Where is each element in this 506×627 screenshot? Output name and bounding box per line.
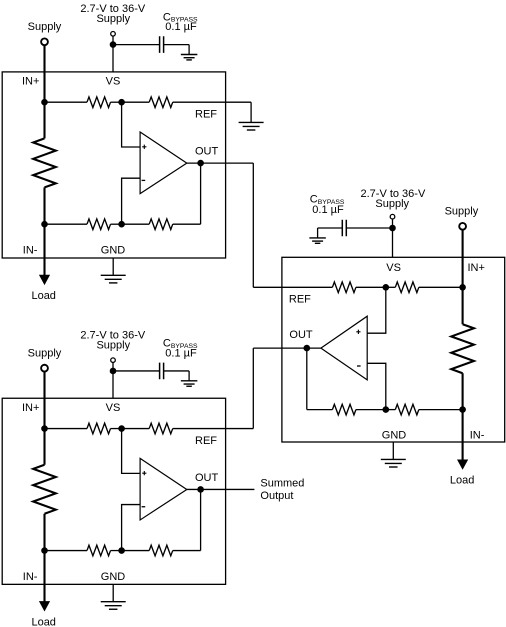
wire node to feedback resistor U1-R4 xyxy=(122,223,150,225)
node IN+ junction of U3 xyxy=(41,425,48,432)
wire U1-R3 to inverting node xyxy=(111,223,122,225)
wire IN- pin of U3 to load xyxy=(43,551,45,602)
svg-text:Load: Load xyxy=(31,616,55,627)
wire U3-R4 to OUT node xyxy=(173,550,201,552)
wire capacitor C2 to VS node of U2 xyxy=(346,227,392,229)
node IN- junction of U1 xyxy=(41,221,48,228)
load arrow of U3 xyxy=(39,601,50,611)
feedback resistor U3-R2 xyxy=(149,423,173,434)
wire VS node to bypass capacitor C3 xyxy=(113,370,160,372)
wire ground to bypass capacitor C2 xyxy=(318,227,343,229)
svg-text:Supply: Supply xyxy=(445,205,479,217)
shunt resistor RS2 bottom lead xyxy=(462,373,464,409)
wire U2-R4 to IN- node xyxy=(419,409,463,411)
wire U1-R1 to noninverting node xyxy=(111,101,122,103)
svg-text:VS: VS xyxy=(386,262,401,274)
amplifier block U3 body xyxy=(2,398,225,584)
svg-text:GND: GND xyxy=(382,429,407,441)
wire U2-R3 to inverting node xyxy=(356,409,386,411)
wire IN+ node to gain resistor U3-R1 xyxy=(45,428,88,430)
svg-text:IN-: IN- xyxy=(23,245,38,257)
op-amp U3 + input marker xyxy=(142,471,146,475)
shunt resistor RS3 xyxy=(33,465,56,514)
junction VS node of U1 xyxy=(110,41,117,48)
shunt resistor RS1 xyxy=(33,138,56,187)
wire IN- node to gain resistor U3-R3 xyxy=(45,550,88,552)
svg-text:IN-: IN- xyxy=(470,429,485,441)
svg-text:Output: Output xyxy=(260,490,293,502)
node IN- junction of U3 xyxy=(41,547,48,554)
svg-text:0.1 µF: 0.1 µF xyxy=(312,204,344,216)
wire op-amp output to OUT pin of U1 and to U2 REF xyxy=(187,162,254,164)
svg-text:Supply: Supply xyxy=(96,340,130,352)
shunt resistor RS2 top lead xyxy=(462,287,464,324)
wire VS terminal to node for U1 xyxy=(112,36,114,45)
supply terminal (IN+) for U1 xyxy=(41,38,48,45)
svg-text:GND: GND xyxy=(101,571,126,583)
VS supply terminal for U3 xyxy=(111,358,116,363)
wire U2 OUT down toward U3 REF xyxy=(252,348,254,428)
svg-text:IN-: IN- xyxy=(23,571,38,583)
wire noninverting node to op-amp + input of U1 xyxy=(122,102,141,147)
wire supply terminal to IN+ pin of U2 xyxy=(462,230,464,288)
wire node to feedback resistor U3-R4 xyxy=(122,550,150,552)
wire inverting node to op-amp - input of U3 xyxy=(122,505,141,551)
op-amp U1 - input marker xyxy=(142,179,146,181)
op-amp U2 - input marker xyxy=(357,365,361,367)
ground at GND pin of U1 xyxy=(112,258,114,275)
VS supply terminal for U1 xyxy=(111,32,116,37)
wire VS node to bypass capacitor C1 xyxy=(113,44,160,46)
node IN+ junction of U1 xyxy=(41,99,48,106)
amplifier block U2 body xyxy=(282,257,505,442)
wire op-amp output to OUT pin of U3 (summed output) xyxy=(187,488,255,490)
junction inverting input node of U3 xyxy=(118,547,125,554)
junction noninverting input node of U2 xyxy=(383,284,390,291)
ground at GND pin of U3 xyxy=(112,584,114,601)
junction OUT node of U3 xyxy=(197,486,204,493)
bypass capacitor C2 xyxy=(342,220,346,237)
svg-text:VS: VS xyxy=(106,402,121,414)
wire IN- pin of U1 to load xyxy=(43,224,45,275)
wire U2-R2 to IN+ node xyxy=(419,286,463,288)
ground for bypass capacitor C3 xyxy=(188,371,190,381)
bypass capacitor C3 xyxy=(160,363,164,380)
svg-text:REF: REF xyxy=(289,293,311,305)
svg-text:IN+: IN+ xyxy=(22,75,39,87)
svg-text:Load: Load xyxy=(31,290,55,302)
wire U1 OUT down toward U2 REF xyxy=(252,163,254,287)
load arrow of U2 xyxy=(457,460,468,470)
gain resistor U3-R1 xyxy=(87,423,111,434)
shunt resistor RS3 top lead xyxy=(43,429,45,465)
wire REF pin of U1 to ground xyxy=(173,101,251,103)
junction noninverting input node of U3 xyxy=(118,425,125,432)
wire REF pin of U3 to U2 OUT net xyxy=(173,428,254,430)
gain resistor U2-R1 xyxy=(332,282,356,293)
wire capacitor C3 to ground xyxy=(164,370,190,372)
wire supply terminal to IN+ pin of U1 xyxy=(43,45,45,102)
svg-text:GND: GND xyxy=(101,245,126,257)
svg-text:0.1 µF: 0.1 µF xyxy=(165,21,197,33)
junction OUT node of U1 xyxy=(197,160,204,167)
feedback resistor U2-R2 xyxy=(395,282,419,293)
op-amp U2 xyxy=(321,316,367,380)
wire OUT node to feedback resistor U2-R4 xyxy=(306,348,308,410)
svg-text:Supply: Supply xyxy=(28,21,62,33)
wire supply terminal to IN+ pin of U3 xyxy=(43,372,45,429)
svg-text:Supply: Supply xyxy=(96,13,130,25)
wire VS node to VS pin of U1 xyxy=(112,45,114,72)
svg-text:REF: REF xyxy=(195,435,217,447)
wire capacitor C1 to ground xyxy=(164,44,190,46)
feedback resistor U3-R4 xyxy=(149,545,173,556)
gain resistor U3-R3 xyxy=(87,545,111,556)
svg-text:IN+: IN+ xyxy=(22,402,39,414)
svg-text:REF: REF xyxy=(195,109,217,121)
wire IN- pin of U2 to load xyxy=(462,410,464,460)
junction noninverting input node of U1 xyxy=(118,99,125,106)
amplifier block U1 body xyxy=(2,72,225,258)
wire inverting node to op-amp - input of U2 xyxy=(367,363,386,409)
feedback resistor U2-R4 xyxy=(395,404,419,415)
wire U2-R1 to noninverting node xyxy=(356,286,386,288)
VS supply terminal for U2 xyxy=(390,214,395,219)
wire OUT node to feedback resistor U3-R4 xyxy=(200,489,202,550)
node IN+ junction of U2 xyxy=(459,284,466,291)
op-amp U1 xyxy=(140,132,187,194)
wire inverting node to op-amp - input of U1 xyxy=(122,178,141,224)
shunt resistor RS2 xyxy=(451,324,474,373)
wire U1-R4 to OUT node xyxy=(173,223,201,225)
wire VS terminal to node for U3 xyxy=(112,362,114,371)
node IN- junction of U2 xyxy=(459,406,466,413)
svg-text:Summed: Summed xyxy=(260,478,304,490)
svg-text:Load: Load xyxy=(450,475,474,487)
svg-text:OUT: OUT xyxy=(289,329,313,341)
svg-text:0.1 µF: 0.1 µF xyxy=(165,347,197,359)
wire node to feedback resistor U2-R4 xyxy=(386,409,396,411)
feedback resistor U1-R2 xyxy=(149,97,173,108)
wire node to feedback resistor U2-R2 xyxy=(386,286,396,288)
wire VS node to VS pin of U2 xyxy=(392,228,394,257)
wire bottom row left lead of U2 xyxy=(307,409,333,411)
gain resistor U1-R1 xyxy=(87,97,111,108)
wire U1 OUT to REF pin / gain resistor U2-R1 xyxy=(253,286,332,288)
svg-text:Supply: Supply xyxy=(28,347,62,359)
gain resistor U1-R3 xyxy=(87,219,111,230)
wire op-amp output to OUT pin of U2 toward U3 REF xyxy=(253,347,321,349)
junction inverting input node of U2 xyxy=(383,406,390,413)
svg-text:OUT: OUT xyxy=(195,472,219,484)
wire U3-R3 to inverting node xyxy=(111,550,122,552)
load arrow of U1 xyxy=(39,275,50,285)
svg-text:VS: VS xyxy=(106,75,121,87)
wire U3-R1 to noninverting node xyxy=(111,428,122,430)
shunt resistor RS1 bottom lead xyxy=(43,187,45,224)
wire noninverting node to op-amp + input of U2 xyxy=(367,287,386,333)
wire OUT node to feedback resistor U1-R4 xyxy=(200,163,202,224)
svg-text:IN+: IN+ xyxy=(468,262,485,274)
svg-text:OUT: OUT xyxy=(195,146,219,158)
op-amp U2 + input marker xyxy=(356,330,360,334)
junction inverting input node of U1 xyxy=(118,221,125,228)
wire node to feedback resistor U1-R2 xyxy=(122,101,150,103)
shunt resistor RS3 bottom lead xyxy=(43,514,45,551)
wire IN- node to gain resistor U1-R3 xyxy=(45,223,88,225)
junction OUT node of U2 xyxy=(304,345,311,352)
shunt resistor RS1 top lead xyxy=(43,102,45,138)
junction VS node of U3 xyxy=(110,368,117,375)
wire node to feedback resistor U3-R2 xyxy=(122,428,150,430)
op-amp U3 - input marker xyxy=(142,506,146,508)
ground for bypass capacitor C1 xyxy=(188,45,190,55)
feedback resistor U1-R4 xyxy=(149,219,173,230)
op-amp U3 xyxy=(140,458,187,520)
bypass capacitor C1 xyxy=(160,36,164,53)
supply terminal (IN+) for U2 xyxy=(459,223,466,230)
wire VS terminal to node for U2 xyxy=(392,219,394,228)
gain resistor U2-R3 xyxy=(332,404,356,415)
wire noninverting node to op-amp + input of U3 xyxy=(122,429,141,474)
op-amp U1 + input marker xyxy=(142,145,146,149)
ground at GND pin of U2 xyxy=(392,442,394,459)
junction VS node of U2 xyxy=(389,225,396,232)
supply terminal (IN+) for U3 xyxy=(41,365,48,372)
ground for bypass capacitor C2 xyxy=(317,228,319,238)
svg-text:Supply: Supply xyxy=(375,198,409,210)
wire IN+ node to gain resistor U1-R1 xyxy=(45,101,88,103)
ground at REF of U1 xyxy=(250,102,252,122)
wire VS node to VS pin of U3 xyxy=(112,371,114,398)
